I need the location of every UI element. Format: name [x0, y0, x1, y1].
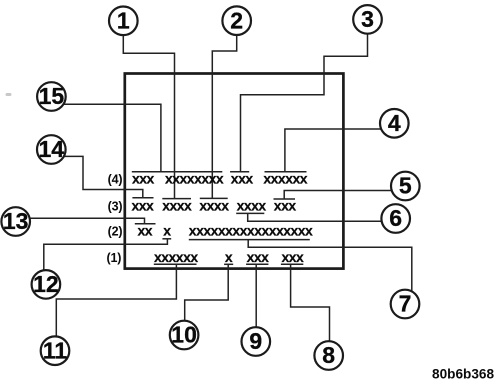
- svg-text:xxxxxxxxxxxxxxxxx: xxxxxxxxxxxxxxxxx: [189, 222, 313, 238]
- svg-text:xxxxxx: xxxxxx: [263, 170, 307, 186]
- svg-text:10: 10: [171, 322, 197, 348]
- svg-text:14: 14: [39, 136, 65, 162]
- callout circle 6: [381, 204, 410, 233]
- svg-text:xxx: xxx: [132, 170, 155, 186]
- callout circle 5: [391, 172, 420, 201]
- row (1) bracket under group 3: [246, 263, 268, 265]
- row (3) bracket over group 2: [162, 198, 191, 200]
- svg-text:2: 2: [230, 7, 243, 33]
- scan speck: [6, 93, 12, 96]
- svg-text:5: 5: [399, 173, 412, 199]
- callout circle 9: [242, 327, 271, 356]
- plate outline box: [125, 74, 344, 269]
- svg-text:xxx: xxx: [132, 197, 155, 213]
- row (2) bracket under group 2: [162, 238, 171, 240]
- svg-text:4: 4: [388, 110, 401, 136]
- svg-text:9: 9: [249, 328, 262, 354]
- callout circle 3: [353, 5, 382, 34]
- svg-text:xxx: xxx: [231, 170, 254, 186]
- leader 15: [51, 104, 160, 172]
- leader 7: [248, 240, 412, 296]
- svg-text:x: x: [225, 249, 233, 265]
- row (1) bracket under group 1: [154, 263, 197, 265]
- svg-text:xxx: xxx: [274, 197, 297, 213]
- callout circle 2: [222, 6, 251, 35]
- leader 13: [16, 218, 145, 224]
- callout circle 15: [37, 82, 66, 111]
- svg-text:13: 13: [3, 208, 29, 234]
- svg-text:xxx: xxx: [247, 249, 270, 265]
- svg-text:(4): (4): [108, 172, 123, 186]
- svg-text:xxxx: xxxx: [162, 197, 192, 213]
- callout circle 14: [37, 135, 66, 164]
- callout circle 7: [391, 290, 420, 319]
- leader 10: [185, 264, 229, 327]
- callout circle 12: [32, 270, 61, 299]
- row (3) bracket under group 4: [236, 212, 264, 214]
- row (1) bracket under group 2: [224, 263, 233, 265]
- leader 5: [284, 191, 405, 200]
- row (1) bracket under group 4: [281, 263, 303, 265]
- leader 11: [56, 264, 176, 342]
- row (2) bracket under group 3: [189, 239, 310, 241]
- svg-text:(2): (2): [108, 224, 123, 238]
- svg-text:15: 15: [39, 83, 65, 109]
- svg-text:1: 1: [117, 8, 130, 34]
- svg-text:7: 7: [399, 291, 412, 317]
- row (2) bracket over group 1: [135, 223, 156, 225]
- svg-text:3: 3: [361, 6, 374, 32]
- svg-text:xxx: xxx: [282, 249, 305, 265]
- leader 9: [255, 264, 257, 333]
- callout circle 13: [1, 207, 30, 236]
- callout circle 8: [314, 341, 343, 370]
- svg-text:x: x: [163, 222, 171, 238]
- svg-text:xxxx: xxxx: [199, 197, 229, 213]
- row (3) bracket over group 1: [132, 197, 153, 199]
- svg-text:xx: xx: [138, 222, 153, 238]
- leader 1: [123, 35, 174, 198]
- callout circle 4: [380, 109, 409, 138]
- row (4) bracket over group 3: [230, 171, 249, 173]
- svg-text:8: 8: [322, 342, 335, 368]
- svg-text:12: 12: [33, 271, 59, 297]
- leader 2: [212, 35, 236, 198]
- leader 3: [241, 34, 368, 172]
- row (3) bracket over group 3: [200, 197, 228, 199]
- callout circle 1: [109, 6, 138, 35]
- svg-text:6: 6: [389, 205, 402, 231]
- svg-text:11: 11: [43, 337, 68, 363]
- leader 8: [291, 264, 330, 347]
- svg-text:80b6b368: 80b6b368: [432, 367, 494, 381]
- callout circle 11: [41, 336, 70, 365]
- svg-text:xxxxxxxx: xxxxxxxx: [165, 170, 224, 186]
- svg-text:xxxxxx: xxxxxx: [154, 249, 198, 265]
- row (3) bracket over group 5: [274, 198, 296, 200]
- row (4) bracket over group 4: [265, 171, 307, 173]
- svg-text:(3): (3): [108, 199, 123, 213]
- leader 12: [44, 239, 168, 276]
- callout circle 10: [170, 321, 199, 350]
- leader 6: [248, 213, 396, 221]
- svg-text:(1): (1): [107, 251, 122, 265]
- svg-text:xxxx: xxxx: [237, 197, 267, 213]
- leader 4: [285, 129, 394, 172]
- row (4) bracket over groups 1-2: [132, 171, 223, 173]
- leader 14: [51, 156, 143, 197]
